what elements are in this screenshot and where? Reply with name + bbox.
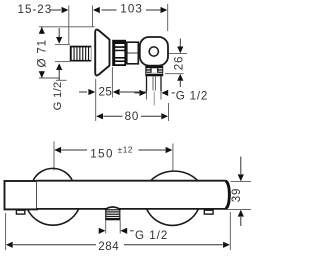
dimension 150 line left seg bbox=[61, 149, 87, 151]
svg-text:103: 103 bbox=[120, 2, 143, 15]
dimension 284 left arrow bbox=[6, 242, 13, 248]
dimension 150 right extension line bbox=[172, 144, 174, 172]
left wall plate notch bbox=[16, 210, 24, 214]
bottom outlet threaded body bbox=[106, 210, 120, 220]
extension line 80 right bbox=[168, 103, 170, 121]
right escutcheon bottom arc bbox=[147, 209, 198, 225]
dimension 80 left arrow bbox=[96, 113, 103, 119]
knurled nut striped part bbox=[112, 40, 126, 66]
svg-text:26: 26 bbox=[172, 56, 185, 71]
svg-text:15-23: 15-23 bbox=[18, 3, 53, 16]
dimension 150 line right seg bbox=[139, 149, 166, 151]
diameter 71 dimension line with arrows bbox=[41, 27, 43, 34]
outlet connector nut bbox=[145, 66, 163, 77]
dimension 284 line right seg bbox=[124, 244, 223, 246]
thread bottom extension line bbox=[55, 61, 70, 63]
dimension 284 line left seg bbox=[13, 244, 96, 246]
svg-text:284: 284 bbox=[98, 240, 119, 253]
svg-text:G 1/2: G 1/2 bbox=[135, 229, 168, 242]
bottom G1/2 right arrow bbox=[120, 228, 127, 234]
outlet bore line right bbox=[154, 77, 156, 91]
dimension 103 line left seg bbox=[102, 9, 117, 11]
dimension 150 right arrow bbox=[166, 147, 173, 153]
outlet centerline bbox=[153, 92, 155, 106]
dimension 103 left arrow bbox=[93, 7, 100, 13]
extension tick outlet top bbox=[165, 73, 184, 75]
bottom G1/2 left arrow bbox=[99, 228, 106, 234]
left wall plate rectangle bbox=[5, 181, 38, 209]
outlet G1/2 left arrow bbox=[139, 90, 146, 96]
outlet extension line left bottom bbox=[105, 221, 107, 234]
outlet G1/2 leader left bbox=[135, 92, 140, 94]
extension line C handle front bbox=[167, 4, 169, 31]
outlet G1/2 right arrow bbox=[161, 90, 168, 96]
outlet extension line right bottom bbox=[119, 221, 121, 234]
bottom G1/2 leader dash bbox=[130, 230, 134, 232]
thread G1/2 dim line lower seg with up arrow bbox=[56, 63, 62, 70]
right small tab bbox=[204, 210, 213, 214]
left escutcheon bottom arc bbox=[28, 209, 79, 225]
wall extension line down bbox=[95, 79, 97, 121]
outlet pipe left edge bbox=[146, 76, 148, 91]
right union nut dome bbox=[151, 171, 199, 181]
extension line A thread left bbox=[68, 6, 70, 45]
dimension 26 line bottom seg bbox=[179, 81, 181, 87]
nut face center line bbox=[127, 52, 138, 54]
extension tick circle axis bbox=[169, 53, 187, 55]
dimension 26 up arrow bbox=[177, 74, 183, 81]
left union nut dome bbox=[33, 168, 73, 180]
svg-text:150: 150 bbox=[90, 147, 114, 160]
diameter 71 bottom extension line bbox=[39, 77, 60, 79]
handle squircle bbox=[140, 37, 168, 66]
dimension 284 right extension line bbox=[229, 212, 231, 250]
outlet bore line left bbox=[152, 77, 154, 91]
svg-text:G 1/2: G 1/2 bbox=[52, 81, 64, 110]
dimension 25 right arrow bbox=[113, 89, 120, 95]
dimension 26 down arrow bbox=[177, 47, 183, 54]
dimension 39 line top seg with down arrow bbox=[240, 157, 242, 175]
dimension 39 top extension line bbox=[231, 180, 252, 182]
mixer bar body bbox=[37, 181, 230, 209]
svg-text:G 1/2: G 1/2 bbox=[176, 90, 208, 103]
thread dim line bottom tick bbox=[56, 79, 67, 81]
thread G1/2 dim line upper seg with down arrow bbox=[58, 28, 60, 38]
extension line nut back bbox=[111, 67, 113, 98]
diameter 71 top extension line bbox=[39, 26, 95, 28]
dimension 80 right arrow bbox=[161, 113, 168, 119]
svg-text:Ø 71: Ø 71 bbox=[35, 39, 48, 67]
dimension 80 line left seg bbox=[103, 115, 122, 117]
dimension 39 bottom extension line bbox=[225, 209, 252, 211]
escutcheon cone bbox=[95, 30, 109, 76]
dimension 150 left extension line bbox=[53, 142, 55, 171]
dimension 284 left extension line bbox=[5, 213, 7, 250]
dimension 103 line right seg bbox=[146, 9, 160, 11]
handle center circle bbox=[149, 47, 158, 56]
dimension 80 line right seg bbox=[141, 115, 161, 117]
wall thread nipple bbox=[70, 46, 92, 62]
dimension 15-23 arrow right bbox=[62, 7, 69, 13]
dimension 25 leader right bbox=[120, 91, 147, 93]
outlet pipe right edge bbox=[160, 76, 162, 91]
svg-text:39: 39 bbox=[230, 188, 243, 203]
svg-text:±12: ±12 bbox=[118, 144, 133, 154]
dimension 15-23 leader line bbox=[50, 9, 61, 11]
outlet G1/2 leader dash bbox=[172, 92, 175, 94]
svg-text:80: 80 bbox=[125, 110, 140, 123]
bar right cap dark edge bbox=[226, 181, 230, 208]
thread top extension line bbox=[55, 44, 70, 46]
svg-text:25: 25 bbox=[99, 86, 113, 99]
dimension 284 right arrow bbox=[223, 242, 230, 248]
dimension 39 line bottom seg with up arrow bbox=[238, 210, 244, 217]
dimension 26 line top seg bbox=[179, 39, 181, 48]
dimension 103 right arrow bbox=[161, 7, 168, 13]
dimension 150 left arrow bbox=[54, 147, 61, 153]
bottom outlet nut dome bbox=[105, 207, 121, 210]
dimension 25 left arrow bbox=[88, 89, 95, 95]
extension line B wall face bbox=[92, 6, 94, 28]
dimension 25 leader left bbox=[79, 91, 87, 93]
nut face section bbox=[127, 42, 139, 64]
